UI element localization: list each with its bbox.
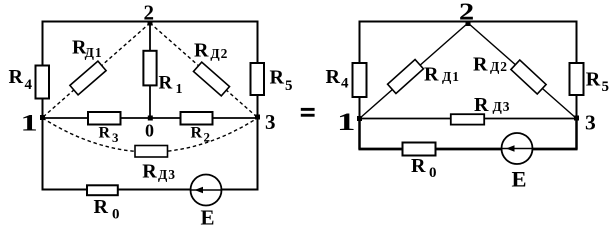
wire: right circuit right vertical lower [575,119,578,150]
wire: dashed diagonal node2-node1 (left circuit) [43,23,151,118]
wire: right circuit diagonal node2-node3 [468,23,577,119]
svg-text:R: R [94,196,109,218]
wire: left circuit left vertical [42,21,44,190]
svg-text:3: 3 [585,111,596,135]
label RД3 (right circuit) [474,94,511,116]
svg-text:R: R [586,68,601,90]
node 2 (right circuit) [466,21,471,26]
wire: right circuit diagonal node1-node2 [360,23,469,119]
resistor R4 (right circuit) [353,63,367,97]
label R1 (left circuit) [159,73,183,98]
svg-text:R: R [270,66,285,88]
svg-text:3: 3 [112,130,119,145]
svg-text:Д2: Д2 [210,46,228,61]
svg-text:1: 1 [337,108,355,136]
svg-text:Д3: Д3 [158,167,176,182]
resistor R5 (left circuit) [251,63,265,95]
node 3 (right circuit) [574,116,579,121]
label R4 (left circuit) [9,66,33,93]
svg-text:1: 1 [176,82,183,97]
svg-text:R: R [474,94,489,116]
wire: right circuit left vertical lower [358,119,361,150]
wire: dashed diagonal node2-node3 (left circuit) [150,23,258,118]
wire: right circuit top rail [359,21,578,23]
resistor RД1 (right circuit, rotated on diagonal 1-2) [388,59,424,93]
svg-text:R: R [326,66,341,88]
wire: left circuit middle rail node1-node3 [43,117,258,119]
resistor RД3 (left circuit, on dashed arc) [135,146,168,158]
wire: right circuit bottom rail [359,148,578,151]
resistor RД2 (left circuit, rotated on diagonal 2-3) [193,62,229,96]
svg-text:2: 2 [144,1,155,25]
wire: right circuit right vertical upper [576,21,578,119]
svg-text:R: R [9,66,24,88]
label R2 (left circuit) [191,124,211,144]
resistor R0 (right circuit) [403,143,436,156]
svg-text:0: 0 [145,121,154,141]
wire: dashed arc node1-node3 (left circuit) [43,118,258,152]
node 0 (left circuit) [148,116,153,121]
resistor R4 (left circuit) [36,66,50,99]
svg-text:5: 5 [602,79,610,95]
label R0 (right circuit) [411,155,437,181]
resistor R5 (right circuit) [570,63,584,95]
resistor RД3 (right circuit) [451,114,484,124]
resistor RД1 (left circuit, rotated on diagonal 1-2) [70,61,106,95]
svg-text:2: 2 [204,130,211,145]
label RД2 (right circuit) [473,53,508,75]
label RД1 (left circuit) [72,37,103,60]
wire: left circuit right vertical [257,21,259,190]
node 1 (left circuit) [40,115,45,120]
svg-text:Д1: Д1 [442,69,460,84]
node 2 (left circuit) [148,21,153,26]
svg-text:1: 1 [21,111,38,136]
label R4 (right circuit) [326,66,350,92]
svg-text:E: E [201,206,215,228]
wire: right circuit left vertical upper [359,21,361,119]
wire: left circuit top rail [42,21,259,23]
svg-text:0: 0 [429,165,437,181]
svg-text:R: R [191,124,203,141]
EMF source E (right circuit) [502,133,533,164]
node 1 (right circuit) [357,116,362,121]
svg-text:4: 4 [341,76,349,92]
svg-text:2: 2 [459,0,474,25]
svg-text:R: R [99,124,111,141]
svg-text:R: R [473,53,488,75]
resistor R0 (left circuit) [87,185,118,195]
svg-text:E: E [512,166,527,191]
svg-text:R: R [424,64,439,86]
wire: left circuit bottom rail [42,189,259,191]
wire: right circuit rail node1-node3 [360,118,577,120]
svg-text:Д1: Д1 [85,45,103,60]
svg-text:5: 5 [285,78,293,94]
svg-text:R: R [159,73,173,94]
resistor R1 (left circuit) [143,51,156,86]
svg-text:R: R [411,155,426,177]
EMF source E (left circuit) [191,175,222,206]
resistor R2 (left circuit) [181,112,213,125]
node 3 (left circuit) [255,115,260,120]
svg-text:4: 4 [25,77,33,93]
label RД2 (left circuit) [194,40,228,62]
wire: left circuit center vertical node2-node0 [149,21,151,118]
svg-text:Д3: Д3 [493,99,511,114]
label R5 (left circuit) [270,66,293,94]
svg-text:Д2: Д2 [490,59,508,74]
svg-text:0: 0 [112,206,120,222]
resistor R3 (left circuit) [88,112,121,125]
svg-text:3: 3 [265,110,276,134]
label R3 (left circuit) [99,124,120,144]
equals sign between circuits [301,108,315,117]
label R0 (left circuit) [94,196,120,222]
label RД3 (left circuit) [142,161,176,183]
svg-text:R: R [142,161,157,183]
svg-text:R: R [194,40,209,62]
label RД1 (right circuit) [424,64,460,86]
resistor RД2 (right circuit, rotated on diagonal 2-3) [511,60,546,94]
label R5 (right circuit) [586,68,609,95]
